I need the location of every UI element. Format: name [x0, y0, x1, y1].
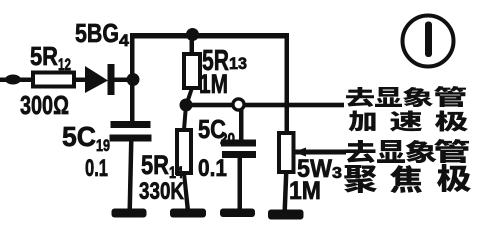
- resistor 5R12: [33, 73, 74, 87]
- wire top rail: [130, 33, 289, 39]
- ground G2 (below 5R14): [170, 209, 206, 218]
- wire node A down to 5C19: [130, 80, 135, 122]
- wire input to 5R12: [0, 78, 35, 83]
- wire top rail down to 5W3 (crosses middle rail, no dot): [285, 36, 290, 133]
- node A junction dot (diode cathode): [127, 73, 140, 86]
- svg-text:330K: 330K: [139, 178, 185, 205]
- text 去显象管 line 1 of focus output: [346, 139, 470, 163]
- node D open circle terminal: [233, 99, 244, 110]
- svg-text:5R: 5R: [141, 150, 169, 180]
- circled numeral 1 marker: [403, 16, 454, 67]
- wire 5C20 to ground: [238, 158, 243, 209]
- text 去显象管 (to picture tube) line 1 of accel output: [346, 86, 466, 107]
- wire node A up to top rail: [130, 38, 135, 80]
- wire middle rail (node C to accel output): [186, 103, 344, 108]
- wire 5R13 to node C: [184, 88, 194, 105]
- diode 5BG4: [85, 64, 128, 95]
- label 5R13: [202, 45, 247, 77]
- svg-text:19: 19: [96, 136, 110, 155]
- node C junction dot: [180, 99, 193, 112]
- label 5C20: [198, 114, 235, 148]
- label 5W3: [297, 155, 342, 183]
- svg-text:5BG: 5BG: [75, 18, 119, 48]
- resistor 5R13: [184, 54, 200, 88]
- text 加速极 (accelerating electrode): [349, 111, 468, 132]
- ground G3 (below 5C20): [220, 209, 255, 218]
- wire node C to 5R14: [182, 105, 188, 130]
- svg-text:5R: 5R: [30, 41, 58, 71]
- svg-text:0.1: 0.1: [198, 155, 227, 182]
- wire 5C19 to ground: [128, 142, 134, 210]
- svg-text:5C: 5C: [62, 121, 96, 152]
- node B junction dot (top of 5R13): [186, 28, 199, 41]
- wire 5R12 to diode: [74, 78, 88, 83]
- wiper arrow of 5W3 to focus output: [294, 148, 347, 157]
- capacitor 5C19: [110, 121, 152, 142]
- svg-text:12: 12: [58, 55, 71, 74]
- label 5R12: [30, 41, 71, 74]
- wire node B to 5R13: [190, 36, 195, 55]
- svg-text:4: 4: [119, 31, 130, 50]
- ground G4 (below 5W3): [268, 210, 304, 220]
- svg-text:300Ω: 300Ω: [20, 90, 69, 120]
- wire node D down to 5C20: [239, 110, 244, 140]
- wire 5W3 to ground: [283, 172, 289, 210]
- label 5R14: [141, 150, 183, 182]
- label 5C19: [62, 121, 110, 155]
- svg-text:13: 13: [229, 54, 247, 73]
- text 聚焦极 (focusing electrode): [344, 164, 471, 193]
- ground G1 (below 5C19): [112, 209, 147, 218]
- svg-text:0.1: 0.1: [85, 155, 108, 182]
- label 5BG4: [75, 18, 130, 50]
- potentiometer 5W3: [279, 133, 294, 172]
- capacitor 5C20: [221, 140, 256, 159]
- wire 5R14 to ground: [182, 173, 190, 209]
- svg-text:20: 20: [220, 131, 235, 148]
- input terminal blob: [5, 75, 21, 85]
- svg-text:3: 3: [332, 165, 342, 182]
- resistor 5R14: [177, 130, 191, 173]
- svg-text:1M: 1M: [199, 69, 228, 99]
- svg-text:1M: 1M: [289, 177, 321, 205]
